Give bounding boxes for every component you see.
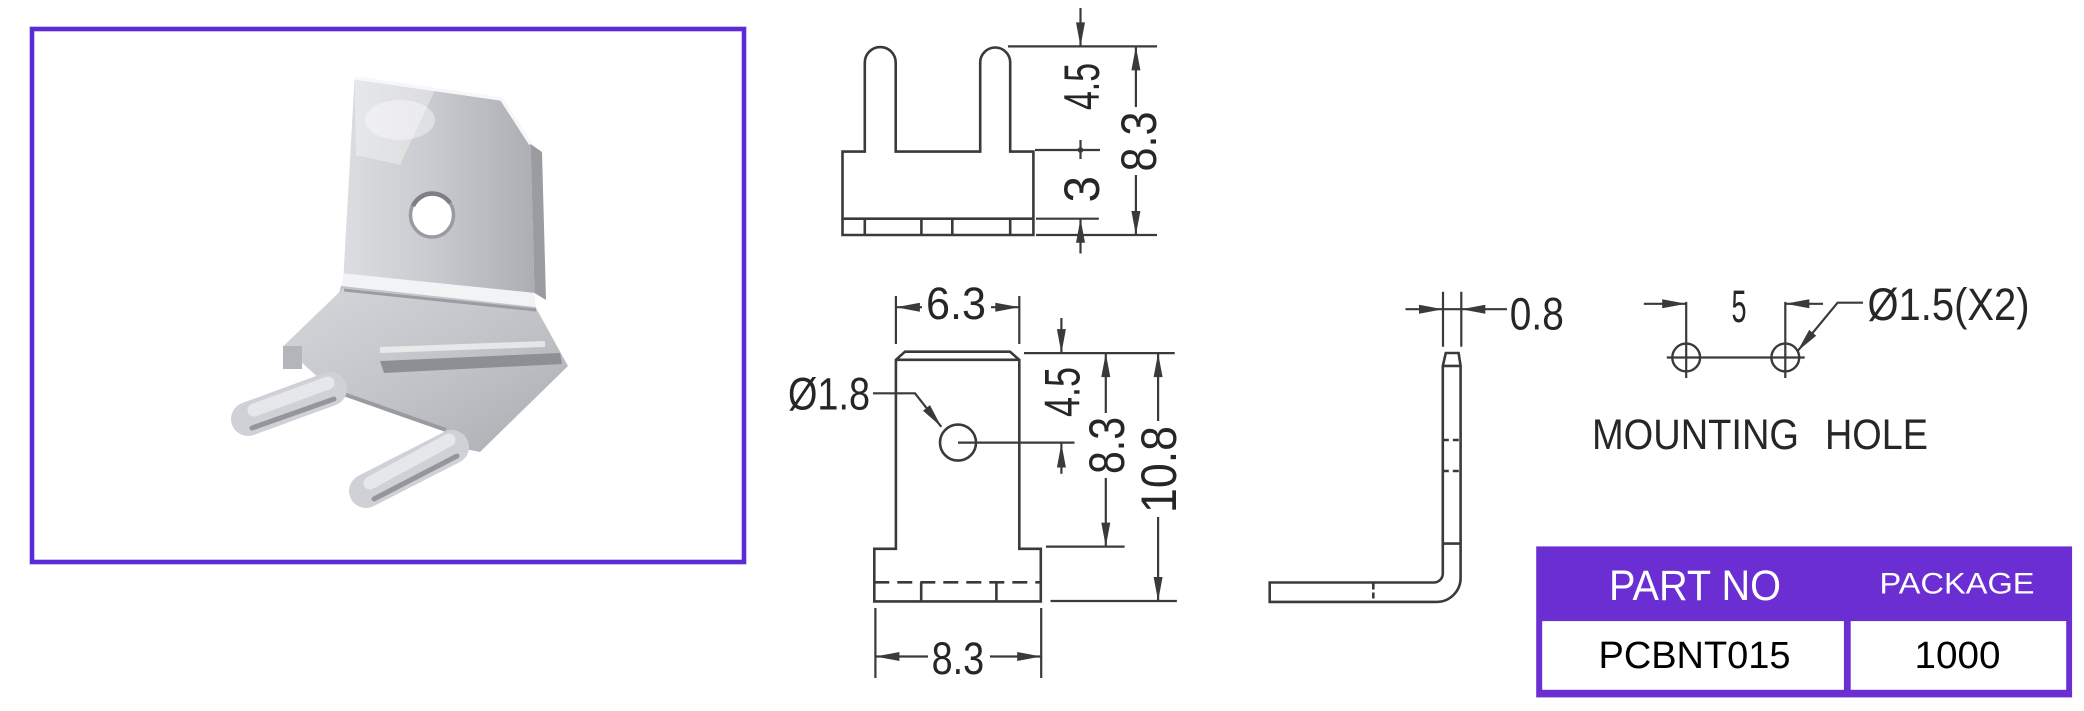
svg-text:PACKAGE: PACKAGE — [1880, 568, 2035, 601]
svg-text:8.3: 8.3 — [1111, 112, 1167, 172]
svg-text:6.3: 6.3 — [926, 278, 986, 329]
svg-text:PART NO: PART NO — [1609, 563, 1781, 610]
svg-text:5: 5 — [1732, 281, 1747, 332]
svg-text:PCBNT015: PCBNT015 — [1599, 635, 1791, 677]
svg-text:MOUNTING: MOUNTING — [1592, 411, 1799, 459]
svg-text:8.3: 8.3 — [1079, 417, 1135, 474]
svg-text:4.5: 4.5 — [1034, 367, 1090, 417]
svg-text:4.5: 4.5 — [1054, 63, 1110, 110]
svg-text:0.8: 0.8 — [1510, 288, 1564, 339]
svg-text:8.3: 8.3 — [932, 633, 985, 684]
svg-text:10.8: 10.8 — [1131, 426, 1187, 513]
svg-text:Ø1.5(X2): Ø1.5(X2) — [1868, 279, 2030, 330]
svg-text:HOLE: HOLE — [1825, 411, 1928, 459]
svg-text:1000: 1000 — [1915, 635, 2001, 677]
svg-text:Ø1.8: Ø1.8 — [788, 369, 870, 420]
svg-text:3: 3 — [1054, 176, 1110, 203]
